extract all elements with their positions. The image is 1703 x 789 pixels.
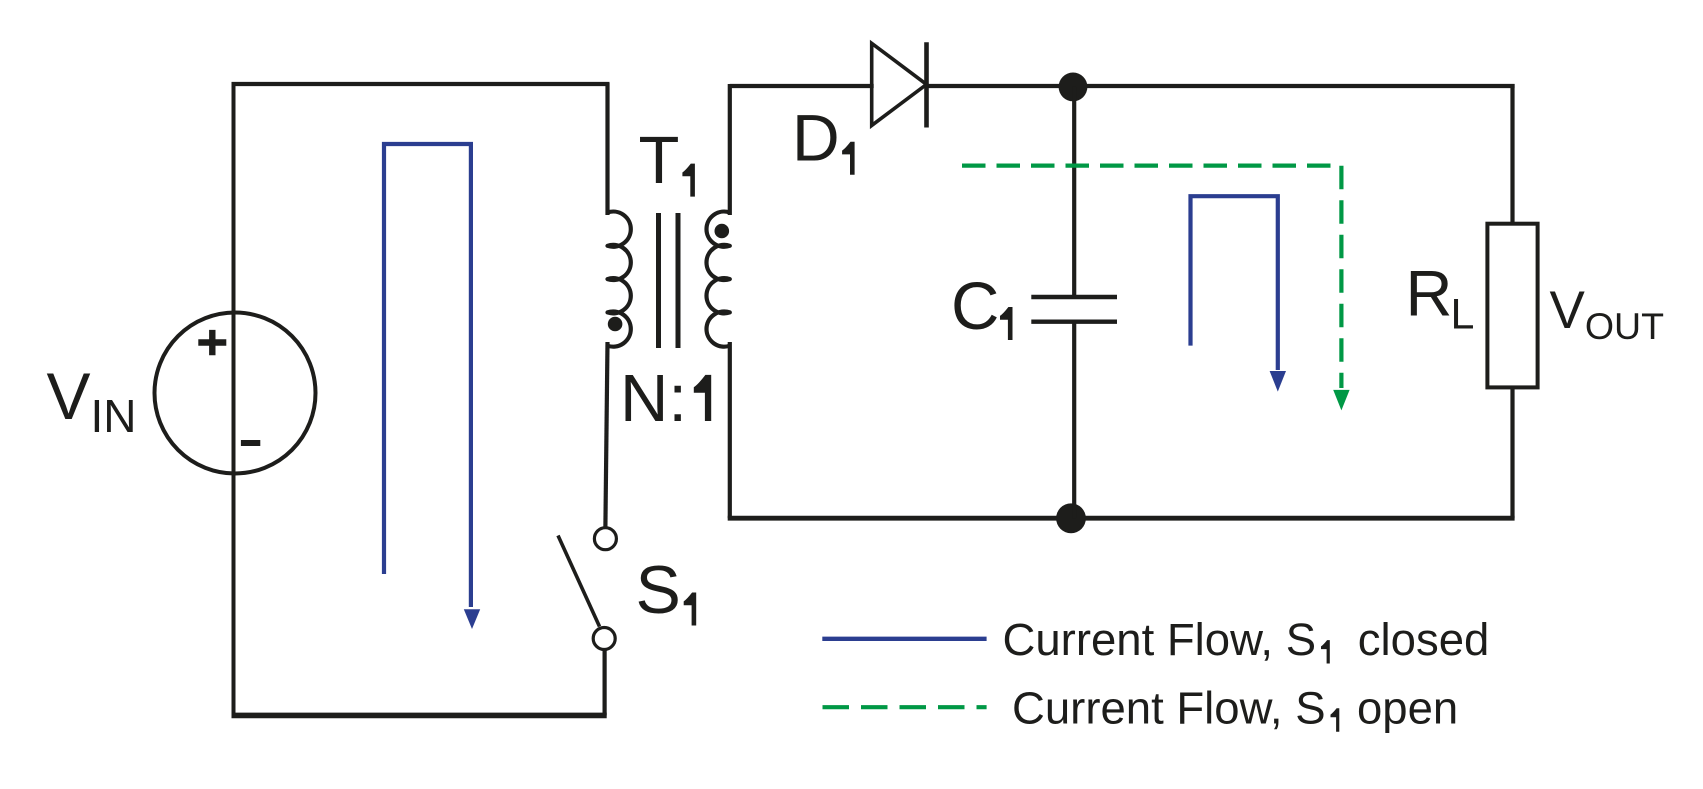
wire: secondary top rail left segment (winding to diode) (730, 84, 874, 88)
resistor RL body (1487, 224, 1537, 388)
junction node bottom (1056, 503, 1086, 533)
voltage source V1 circle (155, 313, 316, 474)
wire: switch bottom to bottom rail (602, 651, 606, 716)
transformer core line 2 (676, 213, 681, 348)
wire: primary loop right upper (top rail to winding) (605, 83, 609, 215)
wire: primary loop left vertical (232, 83, 236, 715)
wire: secondary left vertical upper (top rail to winding) (728, 84, 732, 215)
svg-text:Current Flow, S: Current Flow, S (1012, 683, 1326, 734)
svg-text:D: D (792, 101, 840, 175)
wire: capacitor lower lead (1072, 322, 1076, 519)
plus sign (198, 330, 226, 355)
svg-text:S: S (636, 552, 681, 628)
svg-text:Current Flow, S: Current Flow, S (1003, 614, 1317, 665)
green arrowhead (1333, 390, 1349, 411)
transformer T1 secondary winding (706, 212, 729, 347)
secondary polarity dot (715, 224, 730, 239)
wire: primary loop bottom (232, 713, 607, 719)
blue arrowhead primary (464, 609, 480, 629)
blue current flow arrow, secondary loop (1191, 196, 1278, 370)
wire: secondary right vertical lower (resistor to bottom rail) (1510, 387, 1514, 518)
legend blue solid line (822, 637, 986, 641)
minus sign (241, 440, 260, 446)
wire: capacitor upper lead (1072, 87, 1076, 297)
transformer core line 1 (656, 213, 661, 348)
switch S1 lever (558, 536, 600, 627)
wire: secondary top rail right segment (diode to right corner) (927, 84, 1515, 88)
transformer T1 primary winding (608, 212, 631, 347)
capacitor C1 bottom plate (1031, 320, 1117, 324)
svg-text:N:: N: (620, 361, 687, 436)
diode D1 triangle (872, 43, 927, 125)
switch S1 bottom contact circle (593, 628, 615, 650)
svg-text:T: T (639, 123, 680, 198)
capacitor C1 top plate (1031, 295, 1117, 299)
blue arrowhead secondary (1270, 371, 1286, 392)
green dashed current flow path (962, 166, 1341, 388)
wire: secondary right vertical upper (to resistor) (1510, 84, 1514, 224)
legend green dashed line (823, 705, 987, 709)
switch S1 top contact circle (594, 528, 616, 550)
primary polarity dot (608, 317, 623, 332)
junction node top (output node) (1059, 73, 1088, 102)
wire: primary right lower (winding to switch) (605, 342, 607, 527)
diode D1 cathode bar (924, 42, 929, 127)
svg-text:open: open (1357, 683, 1458, 734)
svg-text:C: C (951, 269, 999, 344)
svg-text:closed: closed (1358, 614, 1490, 665)
wire: primary loop top (232, 82, 610, 86)
wire: secondary left vertical lower (winding to bottom rail) (728, 342, 732, 518)
blue current flow arrow, primary loop (384, 144, 471, 607)
wire: secondary bottom rail (728, 516, 1515, 521)
